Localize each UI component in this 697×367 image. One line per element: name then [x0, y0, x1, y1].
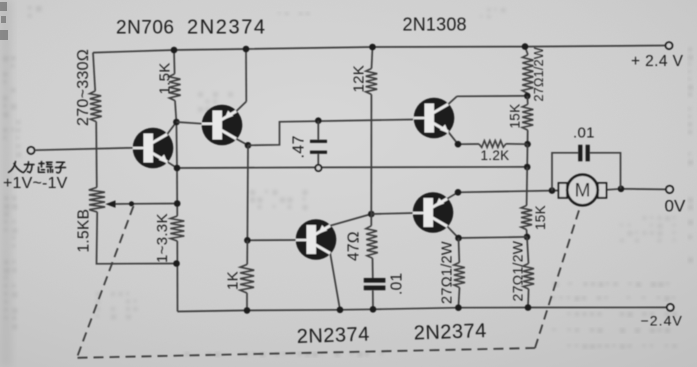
node dot	[618, 186, 625, 193]
capacitor C3 .01 loop	[552, 153, 578, 191]
wire pot bottom leg	[97, 212, 177, 264]
svg-text:.47: .47	[291, 135, 308, 158]
resistor R6 47ohm	[366, 226, 378, 258]
node dot	[173, 119, 180, 126]
potentiometer wiper arrow	[113, 203, 131, 205]
resistor R1 270~330ohm	[90, 91, 102, 122]
transistor Q2 2N2374 (PNP top)	[202, 102, 248, 146]
node dot	[171, 47, 178, 54]
resistor R5 12K column	[372, 47, 373, 69]
svg-text:12K: 12K	[351, 65, 368, 93]
svg-text:27Ω1/2W: 27Ω1/2W	[532, 47, 546, 102]
node dot	[369, 44, 376, 51]
node dot	[455, 304, 462, 311]
svg-text:.01: .01	[389, 273, 406, 295]
resistor R10 15K lower	[526, 167, 529, 206]
wire x527 down	[526, 144, 528, 167]
wire	[176, 168, 178, 204]
wire left rail upper	[93, 53, 95, 91]
node dot	[368, 211, 375, 218]
svg-text:2N1308: 2N1308	[403, 15, 467, 35]
transistor Q4 2N2374 (PNP right)	[413, 192, 459, 238]
transistor Q3 2N2374 (PNP bottom-center)	[296, 214, 372, 310]
svg-text:2N2374: 2N2374	[187, 17, 267, 39]
wire collector line y237	[459, 237, 528, 238]
wire Q5 collector to 27ohm junction	[457, 95, 527, 97]
node dot	[524, 164, 531, 171]
node dot	[455, 189, 462, 196]
node dot	[549, 187, 556, 194]
node dot	[243, 46, 250, 53]
node dot	[522, 43, 529, 50]
svg-text:−2.4V: −2.4V	[641, 313, 683, 329]
svg-text:2N2374: 2N2374	[296, 323, 370, 348]
svg-text:1.2K: 1.2K	[481, 148, 510, 163]
svg-text:15K: 15K	[533, 205, 548, 230]
wire input to Q1 base	[35, 148, 134, 150]
wire wiper to node	[131, 203, 177, 205]
terminal 0V	[666, 186, 673, 193]
node dot	[455, 141, 462, 148]
wire top +2.4V rail	[93, 46, 666, 53]
node dot	[244, 307, 251, 314]
wire Q2 collector column x248	[246, 145, 249, 240]
resistor R4 1K	[246, 240, 248, 264]
transistor Q5 2N1308 (NPN)	[414, 96, 458, 144]
node dot	[337, 307, 344, 314]
resistor R2 1.5K	[169, 74, 181, 101]
node dot	[174, 200, 181, 207]
svg-text:+ 2.4 V: + 2.4 V	[631, 53, 684, 70]
node dot	[524, 141, 531, 148]
node dot	[455, 235, 462, 242]
wire Q4 base	[371, 213, 414, 214]
wire	[176, 204, 178, 217]
node dot	[315, 117, 322, 124]
svg-text:1.5KB: 1.5KB	[76, 209, 93, 253]
node dot	[174, 165, 181, 172]
resistor R7 27ohm 1/2W top	[522, 55, 533, 94]
svg-text:0V: 0V	[665, 197, 686, 216]
resistor R11 27ohm 1/2W lower-left	[458, 238, 461, 263]
svg-text:1.5K: 1.5K	[157, 62, 174, 94]
svg-text:1K: 1K	[225, 271, 242, 290]
node dot	[244, 237, 251, 244]
node dot	[370, 306, 377, 313]
terminal -2.4V	[667, 304, 674, 311]
resistor R9 1.2K	[458, 143, 479, 145]
dashed pointer right	[535, 206, 581, 349]
resistor R3 1~3.3K	[170, 216, 184, 241]
svg-text:2N706: 2N706	[116, 18, 175, 39]
wire	[175, 101, 176, 122]
dashed pointer bottom	[78, 348, 536, 358]
node dot	[173, 260, 180, 267]
svg-text:27Ω1/2W: 27Ω1/2W	[440, 241, 456, 304]
terminal +2.4V	[666, 42, 673, 49]
wire Q2 base	[176, 122, 204, 124]
node column x176: 1.5K / junctions	[173, 50, 176, 74]
wire	[176, 241, 178, 312]
svg-text:47Ω: 47Ω	[346, 231, 363, 261]
potentiometer VR1 1.5KB body	[89, 187, 105, 212]
wire Q2 emitter to top rail	[245, 49, 247, 102]
motor M1	[559, 183, 568, 198]
node dot	[524, 234, 531, 241]
wire emitter line y167	[177, 167, 527, 168]
wire left rail mid	[95, 122, 98, 188]
svg-text:1~3.3K: 1~3.3K	[154, 213, 171, 263]
svg-text:15K: 15K	[508, 104, 523, 129]
wire motor line 0V	[458, 191, 559, 193]
node dot	[245, 142, 252, 149]
svg-text:270~330Ω: 270~330Ω	[75, 49, 92, 126]
svg-text:2N2374: 2N2374	[413, 320, 487, 345]
svg-text:M: M	[575, 181, 591, 202]
terminal input	[28, 147, 35, 154]
capacitor C2 .01	[372, 258, 374, 278]
label input kanji 入力端子	[9, 162, 16, 173]
transistor Q1 2N706 (NPN)	[133, 122, 177, 168]
resistor R12 27ohm 1/2W lower-right	[527, 237, 529, 264]
dashed pointer left	[78, 206, 134, 356]
capacitor C1 .47	[317, 121, 319, 140]
svg-text:+1V~-1V: +1V~-1V	[3, 175, 68, 192]
wire bottom -2.4V rail	[178, 307, 668, 311]
node dot	[524, 93, 531, 100]
node dot	[525, 304, 532, 311]
wire	[370, 94, 372, 214]
open junction on emitter line	[315, 165, 321, 171]
wire node A to emitter junction	[175, 122, 178, 168]
resistor R8 15K top	[522, 104, 533, 130]
wire Q3 base	[247, 239, 298, 241]
svg-text:.01: .01	[573, 125, 595, 142]
wire to coupling corner	[248, 120, 413, 146]
svg-text:27Ω1/2W: 27Ω1/2W	[510, 240, 526, 301]
